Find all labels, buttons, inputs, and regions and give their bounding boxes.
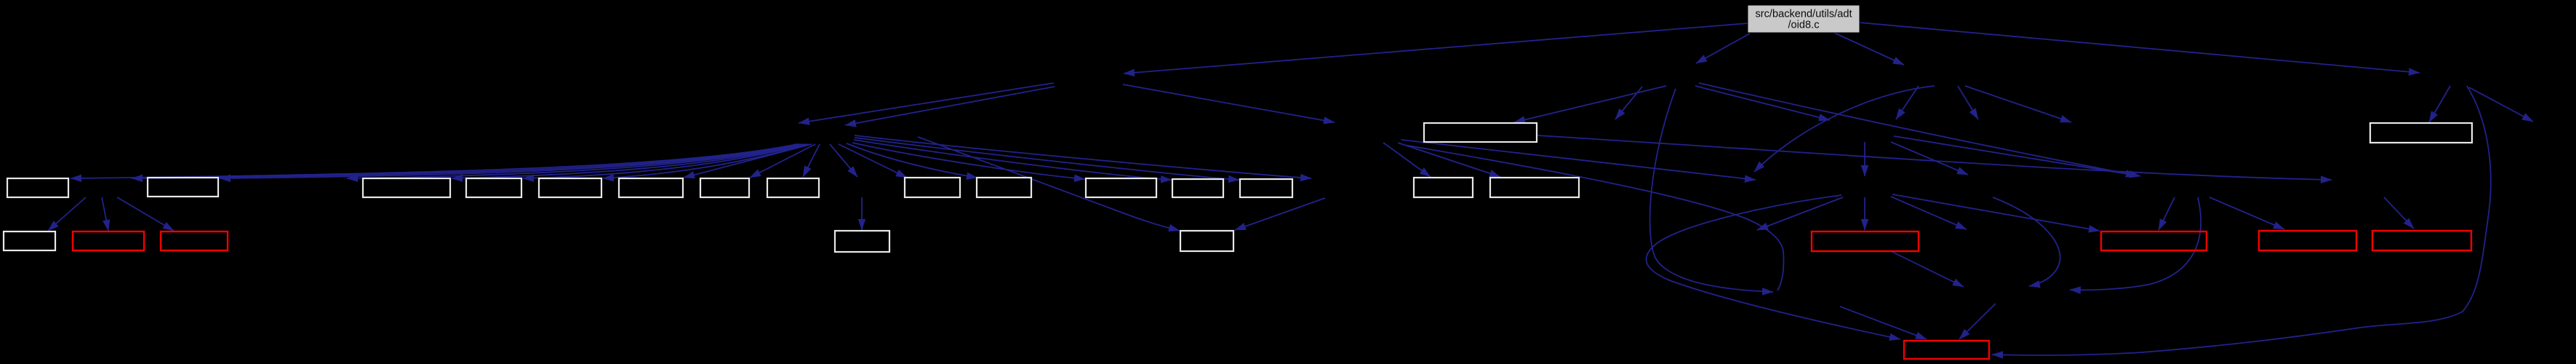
node Wm: [1180, 231, 1233, 251]
svg-text:src/backend/utils/adt: src/backend/utils/adt: [1755, 9, 1852, 20]
wire G to H4: [1860, 23, 2420, 73]
node RB: [1904, 341, 1989, 359]
wire H4 giant arc to RB: [1992, 86, 2491, 355]
wire H4 to W2: [2429, 86, 2450, 122]
wire M to B13: [855, 138, 1239, 180]
wire Nx to R0a: [102, 197, 108, 231]
wire M to B9: [839, 144, 907, 178]
wire H1 to L2b: [1123, 84, 1335, 122]
wire M to B12: [854, 140, 1172, 180]
node R0b: [161, 232, 228, 250]
svg-text:/oid8.c: /oid8.c: [1788, 20, 1820, 31]
wire NL2c to NR: [1864, 142, 1865, 176]
node G root src/backend/utils/adt/oid8.c: [1748, 5, 1860, 33]
wire M to B1: [71, 144, 797, 178]
wire H4 to NFR: [2469, 87, 2533, 122]
wire H2 to NL2c: [1695, 86, 1830, 120]
node W2: [2370, 123, 2472, 143]
wire N13 to Wm: [1235, 198, 1325, 230]
wire G to H3: [1834, 33, 1904, 65]
wire G to H2: [1696, 33, 1750, 63]
node B12: [1172, 179, 1223, 197]
wire G to H1: [1124, 23, 1748, 74]
node W4a: [4, 232, 55, 250]
wire M to B4: [523, 144, 807, 178]
wire L2b to knot: [1404, 145, 1784, 290]
wire L2x to Wm: [918, 137, 1180, 231]
node B9: [905, 178, 960, 197]
wire M to N8b: [830, 144, 857, 177]
wire Nx to W4a: [48, 197, 86, 231]
wire N8b to mid box: [861, 197, 863, 230]
wire H2 to NR2: [1699, 83, 2140, 176]
node L2a: [1424, 123, 1537, 142]
node B10: [977, 178, 1031, 197]
node B15: [1490, 178, 1579, 197]
node R1: [1812, 232, 1919, 251]
wire M to Nx: [132, 144, 799, 178]
node B11: [1086, 178, 1156, 197]
node B6: [619, 178, 683, 197]
wire NR2 to NE: [2070, 197, 2201, 290]
wire M to N2: [347, 144, 802, 178]
wire M to B10: [847, 143, 977, 178]
node B3: [363, 178, 450, 197]
wire H3 to NL2d: [1958, 86, 1978, 119]
node B8: [767, 178, 819, 197]
wire NR3 to R4: [2384, 197, 2414, 229]
wire L2b to NC: [1401, 140, 1756, 180]
node R3: [2259, 231, 2356, 250]
node R2: [2101, 232, 2207, 250]
wire M to B5: [603, 144, 809, 178]
wire L2b to B15: [1398, 143, 1500, 177]
node B5: [539, 178, 601, 197]
wire N5a to RB: [1840, 306, 1927, 339]
wire M to B8: [803, 144, 820, 177]
node R4: [2372, 231, 2471, 250]
wire NE to RB: [1959, 304, 1996, 339]
wire NR2 to R2: [2159, 197, 2175, 230]
wire M to N13: [855, 135, 1311, 178]
wire H1 to M: [845, 87, 1055, 125]
wire NR sweep to RB: [1647, 195, 1900, 339]
node mid4: [835, 231, 889, 252]
node B1: [7, 178, 68, 197]
wire M to B7: [750, 144, 815, 178]
wire M to B11: [852, 143, 1085, 179]
wire NL2c to NR2: [1894, 136, 2137, 175]
wire M to B3: [452, 144, 804, 178]
wire NR to N4x: [1757, 197, 1843, 230]
wire NR to row4r: [1891, 197, 1967, 229]
wire R1 to NE: [1891, 251, 1964, 287]
node B2: [148, 178, 218, 197]
node R0a: [73, 232, 144, 250]
wire NL2c to NRx: [1891, 142, 1968, 175]
wire M to B6: [684, 144, 812, 178]
wire H3 to NC curve: [1754, 86, 1935, 172]
node B14: [1414, 178, 1473, 197]
wire L2b to B14: [1383, 143, 1431, 177]
wire H2 to NL2a: [1615, 87, 1642, 119]
wire H2 arc to N5a: [1650, 89, 1773, 292]
wire H3 to NL2c: [1896, 86, 1919, 119]
wire NR2 to R3: [2209, 197, 2284, 229]
node B7: [700, 178, 749, 197]
wire L2a to NR3: [1537, 135, 2332, 180]
wire NR to R2 corner: [1892, 194, 2100, 231]
wire NR to R1: [1864, 197, 1865, 230]
wire NRx to NE: [1993, 197, 2060, 286]
node B4: [466, 178, 521, 197]
wire Nx to R0b: [117, 197, 174, 231]
wire H2 to L2a: [1514, 86, 1666, 122]
wire H3 to NL2e: [1965, 86, 2071, 122]
wire M to B2: [220, 144, 800, 178]
node B13: [1240, 179, 1292, 197]
wire H1 to M left: [799, 83, 1054, 123]
